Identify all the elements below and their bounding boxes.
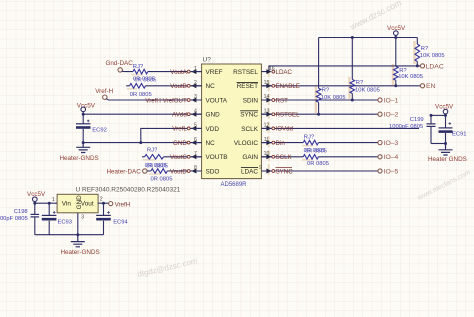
resistor R? 10K 0805 (R4 pull-up to RSTSEL/IO-2) (318, 38, 320, 89)
junction (139, 141, 142, 144)
wire R1 bottom to LDAC node (416, 62, 418, 66)
svg-text:C199: C199 (410, 117, 424, 123)
svg-text:0R 0805: 0R 0805 (305, 149, 327, 155)
svg-text:AD5689R: AD5689R (221, 182, 248, 188)
wire Din row pin11 to resistor (261, 142, 378, 144)
svg-text:RJ?: RJ? (147, 147, 158, 153)
EC92 plus mark (87, 120, 90, 123)
svg-text:12: 12 (264, 123, 270, 129)
svg-text:GAIN: GAIN (242, 154, 258, 161)
capacitor EC93 leads (48, 203, 50, 235)
wire Vcc stem (395, 35, 397, 37)
port IO-4 (378, 155, 382, 159)
svg-text:RSTSEL: RSTSEL (233, 69, 258, 76)
svg-text:R?: R? (399, 68, 407, 74)
svg-text:ENABLE: ENABLE (276, 83, 300, 90)
svg-text:EN: EN (426, 83, 436, 90)
junction (48, 202, 51, 205)
wire ENABLE row pin15 to EN port (261, 85, 420, 87)
svg-text:SYNC: SYNC (276, 168, 294, 175)
EC94 plus mark (107, 211, 110, 214)
svg-text:VOUTA: VOUTA (206, 97, 228, 104)
wire Vref-H to pin3 (106, 99, 201, 100)
svg-text:EC94: EC94 (113, 219, 128, 225)
svg-text:0R 0805: 0R 0805 (307, 161, 329, 167)
left pin stubs and triangles (191, 69, 201, 173)
svg-text:1000pF 0805: 1000pF 0805 (0, 216, 28, 222)
svg-text:VrefH: VrefH (115, 201, 131, 208)
svg-text:VLOGIC: VLOGIC (234, 140, 259, 147)
svg-text:GND: GND (206, 112, 221, 119)
ground Heater-GNDS (bottom) (71, 235, 85, 247)
svg-text:2: 2 (194, 80, 197, 86)
capacitor EC92 leads (82, 114, 84, 142)
resistor R? 10K 0805 (R1 pull-up to LDAC) (415, 44, 420, 62)
capacitor EC92 plates (76, 123, 91, 125)
wire AVdd row pin4 (83, 113, 201, 115)
svg-text:SCLK: SCLK (241, 126, 258, 133)
junction (82, 141, 85, 144)
voltage reference U REF3040 body (57, 194, 98, 213)
svg-text:Vref-H: Vref-H (95, 88, 113, 95)
port IO-5 (378, 169, 382, 173)
port Vref-H circle (103, 95, 107, 99)
svg-text:VDD: VDD (206, 126, 220, 133)
EC93 plus mark (53, 211, 56, 214)
wire RSTSEL row pin13 to IO-2 port (261, 113, 378, 115)
svg-text:IO–1: IO–1 (384, 97, 399, 104)
svg-text:Heater-DAC: Heater-DAC (107, 168, 142, 175)
resistor RJ? (0R 0805) pin1 row (133, 69, 148, 74)
svg-text:EC92: EC92 (92, 127, 107, 133)
port Gnd-DAC circle (118, 68, 122, 72)
svg-text:IO–4: IO–4 (384, 154, 399, 161)
wire pin2 Vout to VrefH port (98, 202, 109, 204)
svg-text:IO–2: IO–2 (384, 112, 399, 119)
svg-text:VoutC: VoutC (170, 154, 187, 161)
wire cap rail (431, 114, 446, 116)
svg-text:VoutB: VoutB (170, 83, 187, 90)
junction (394, 36, 397, 39)
svg-text:0R 0805: 0R 0805 (134, 77, 156, 83)
junction at R4 bottom (317, 113, 320, 116)
svg-text:LDAC: LDAC (241, 168, 258, 175)
svg-text:2: 2 (100, 197, 103, 203)
right pin stubs and triangles (261, 69, 271, 173)
svg-text:Vcc5V: Vcc5V (77, 102, 96, 109)
wire stub to resistor pin7 row (142, 156, 202, 158)
svg-text:VOUTB: VOUTB (206, 154, 228, 161)
svg-text:SYNC: SYNC (240, 112, 258, 119)
resistor 0R 0805 (SCLK/IO-4) (303, 155, 318, 160)
svg-text:RJ?: RJ? (133, 64, 144, 70)
wire Heater-DAC to resistor pin8 row (147, 170, 202, 172)
wire RST row pin14 to IO-1 port (261, 99, 378, 101)
wire VrefL row pin5 with drop to GND row (141, 128, 202, 142)
svg-text:7: 7 (194, 151, 197, 157)
wire IOVdd row pin12 (261, 127, 419, 129)
wire SYNC row pin9 to IO-5 port (261, 170, 378, 172)
ground Heater GNDS (right) (439, 144, 453, 156)
svg-text:RST: RST (276, 97, 289, 104)
svg-text:IO–3: IO–3 (384, 140, 399, 147)
svg-text:GND: GND (173, 140, 187, 147)
svg-text:LDAC: LDAC (426, 63, 444, 70)
capacitor EC91 leads (445, 115, 447, 143)
svg-text:EC91: EC91 (452, 131, 467, 137)
svg-text:R?: R? (322, 88, 330, 94)
svg-text:3: 3 (194, 94, 197, 100)
svg-text:LDAC: LDAC (276, 69, 293, 76)
capacitor EC91 plates (439, 127, 453, 129)
svg-text:5: 5 (194, 123, 197, 129)
svg-text:1000pF 0805: 1000pF 0805 (389, 124, 423, 130)
wire top rail (319, 37, 418, 39)
svg-text:9: 9 (259, 165, 262, 171)
svg-text:Din: Din (276, 140, 286, 147)
wire bottom rail (35, 234, 104, 236)
svg-text:14: 14 (264, 94, 270, 100)
junction at R3 bottom (351, 99, 354, 102)
svg-text:NC: NC (206, 83, 216, 90)
svg-text:C198: C198 (14, 209, 28, 215)
EC91 plus mark (449, 122, 452, 125)
resistor RJ? (0R 0805) pin2 row (130, 84, 146, 89)
svg-text:RSTSEL: RSTSEL (276, 112, 301, 119)
port IO-1 (378, 98, 382, 102)
svg-text:10: 10 (264, 151, 270, 157)
port Heater-DAC circle (143, 169, 147, 173)
port VrefH (109, 202, 113, 206)
svg-text:3: 3 (81, 215, 84, 221)
junction (102, 202, 105, 205)
resistor RJ? 0R 0805 (Din/IO-3) (303, 140, 318, 145)
svg-text:R?: R? (421, 46, 429, 52)
svg-text:SDIN: SDIN (243, 97, 259, 104)
svg-text:U?: U? (203, 57, 212, 64)
junction at R2 bottom (394, 84, 397, 87)
junction (351, 36, 354, 39)
wire rail corner down to R1 (416, 38, 418, 45)
capacitor C198 plates (31, 213, 40, 215)
junction (33, 202, 36, 205)
svg-text:VrefL: VrefL (172, 126, 187, 133)
svg-text:SDO: SDO (206, 168, 220, 175)
svg-text:Heater-GNDS: Heater-GNDS (61, 249, 100, 256)
svg-text:1: 1 (52, 197, 55, 203)
wire stub to resistor pin2 row (126, 85, 201, 87)
junction (76, 233, 79, 236)
svg-text:8: 8 (194, 165, 197, 171)
capacitor C198 leads (34, 203, 36, 235)
svg-text:10K 0805: 10K 0805 (398, 74, 423, 80)
capacitor C199 plates (427, 123, 436, 125)
svg-text:RESET: RESET (237, 83, 258, 90)
wire Gnd-DAC to resistor RJ? pin1 row (122, 70, 202, 72)
svg-text:10K 0805: 10K 0805 (321, 95, 346, 101)
svg-text:Vin: Vin (62, 201, 72, 208)
svg-text:Heater GNDS: Heater GNDS (428, 156, 467, 163)
svg-text:VoutD: VoutD (170, 168, 187, 175)
wire Vcc to pin1 Vin (35, 202, 57, 204)
junction (82, 113, 85, 116)
svg-text:IO–5: IO–5 (384, 168, 399, 175)
capacitor EC94 plates (96, 214, 111, 216)
svg-text:RJ?: RJ? (304, 135, 315, 141)
wire Vcc5V stem to AVdd row (82, 112, 84, 115)
IC U? AD5689R DAC body (202, 64, 262, 179)
capacitor EC93 plates (42, 214, 57, 216)
svg-text:15: 15 (264, 80, 270, 86)
wire pin3 GND stem (77, 213, 79, 235)
capacitor C199 leads (430, 115, 432, 143)
svg-text:SCLK: SCLK (276, 154, 293, 161)
svg-text:Vout: Vout (81, 201, 94, 208)
svg-text:0R 0805: 0R 0805 (151, 177, 173, 183)
svg-text:13: 13 (264, 108, 270, 114)
svg-text:VrefH VrefOUT: VrefH VrefOUT (145, 97, 187, 104)
svg-text:Heater-GNDS: Heater-GNDS (60, 155, 99, 162)
resistor RJ? (0R 0805) pin7 row (145, 155, 164, 160)
wire LDAC long run from pin16 jog (269, 66, 420, 72)
wire cap bottoms join (431, 143, 446, 145)
svg-text:R?: R? (356, 80, 364, 86)
svg-text:IOVdd: IOVdd (276, 126, 294, 133)
port EN (420, 84, 424, 88)
port IO-3 (378, 141, 382, 145)
resistor R? 10K 0805 (R3 pull-up to RST/IO-1) (351, 38, 353, 80)
svg-text:11: 11 (264, 137, 269, 143)
svg-text:10K 0805: 10K 0805 (420, 53, 445, 59)
resistor R? 10K 0805 (R2 pull-up to ENABLE) (395, 38, 397, 67)
ground Heater-GNDS (left) (76, 143, 90, 153)
svg-text:AVdd: AVdd (172, 112, 187, 119)
svg-text:U REF3040.R25040280.R25040321: U REF3040.R25040280.R25040321 (76, 187, 181, 194)
junction at R1 bottom (416, 64, 419, 67)
capacitor EC94 leads (103, 203, 105, 235)
svg-text:NC: NC (206, 140, 216, 147)
artifact bands (316, 41, 415, 113)
svg-text:EC93: EC93 (58, 219, 73, 225)
svg-text:4: 4 (194, 108, 197, 114)
resistor RJ? (0R 0805) pin8 row (151, 169, 167, 174)
port IO-2 (378, 112, 382, 116)
svg-text:10K 0805: 10K 0805 (355, 88, 380, 94)
wire GND row pin6 (83, 142, 201, 144)
svg-text:1: 1 (194, 66, 197, 72)
svg-text:Gnd-DAC: Gnd-DAC (106, 60, 134, 67)
wire SCLK row pin10 to resistor (261, 156, 378, 158)
port LDAC (420, 64, 424, 68)
svg-text:VREF: VREF (206, 69, 223, 76)
svg-text:VoutA: VoutA (170, 69, 187, 76)
svg-text:6: 6 (194, 137, 197, 143)
